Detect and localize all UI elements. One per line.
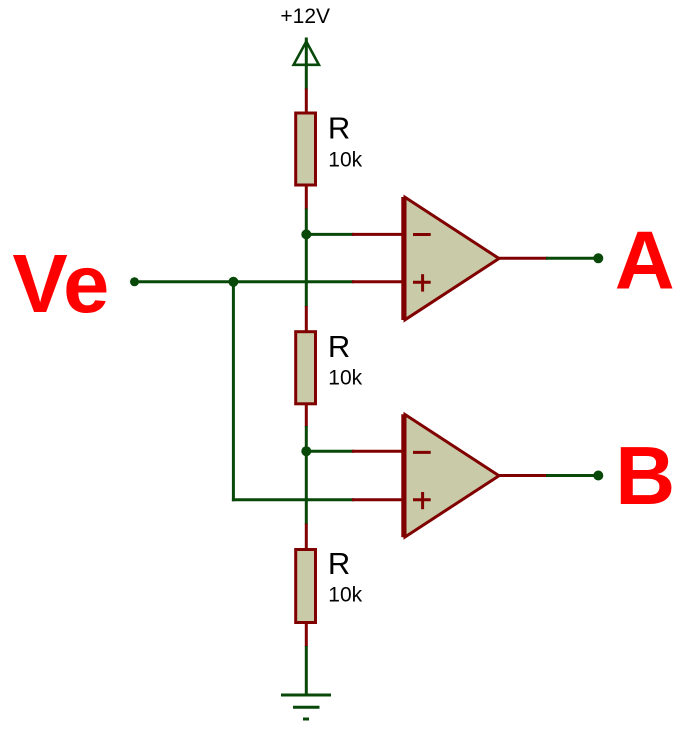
svg-text:Ve: Ve [12,237,109,330]
wire: green output to B [546,474,598,477]
wire: red pin stub U2 - input [352,450,403,453]
wire: vertical green R2 to R3 [305,426,308,525]
power +12V symbol [294,38,319,90]
junction node R1/R2 to U1 - [301,229,311,239]
wire: pin stub top of R2 [305,306,308,332]
svg-text:R: R [328,546,350,581]
svg-text:+12V: +12V [280,5,330,28]
wire: pin stub bottom of R2 [305,403,308,427]
wire: vertical green R3 to ground [305,646,308,695]
wire: red pin stub U1 - input [352,233,403,236]
wire: vertical green branch from Ve node down [232,282,235,502]
op-amp U2 [403,414,499,537]
svg-text:10k: 10k [328,367,362,390]
svg-text:B: B [615,429,675,522]
svg-text:A: A [615,213,675,306]
wire: red pin stub U1 + input [352,280,403,283]
resistor R3 [296,550,316,623]
wire: green from node to U2 - input [306,450,354,453]
wire: green output to A [546,257,598,260]
wire: vertical green R1 to R2 [305,209,308,308]
wire: red output pin U1 [497,257,548,260]
terminal B dot [593,471,603,481]
resistor R2 [296,332,316,404]
wire: red output pin U2 [497,474,548,477]
op-amp U1 [403,197,499,320]
wire: horizontal green to op-amp U2 + input [232,498,354,501]
wire: green from node to U1 - input [306,233,354,236]
wire: pin stub bottom of R3 [305,623,308,648]
svg-text:R: R [328,329,350,364]
wire: Ve horizontal green to op-amp U1 + input [135,280,355,283]
svg-text:R: R [328,110,350,145]
wire: pin stub top of R3 [305,524,308,550]
svg-text:10k: 10k [328,149,362,172]
terminal Ve dot [130,277,139,286]
junction node Ve branch [228,277,238,287]
wire: pin stub bottom of R1 [305,186,308,210]
svg-text:10k: 10k [328,584,362,607]
terminal A dot [593,253,603,263]
wire: pin stub top of R1 [305,89,308,114]
wire: red pin stub U2 + input [352,498,403,501]
ground [281,695,331,719]
junction node R2/R3 to U2 - [301,446,311,456]
resistor R1 [296,113,316,185]
